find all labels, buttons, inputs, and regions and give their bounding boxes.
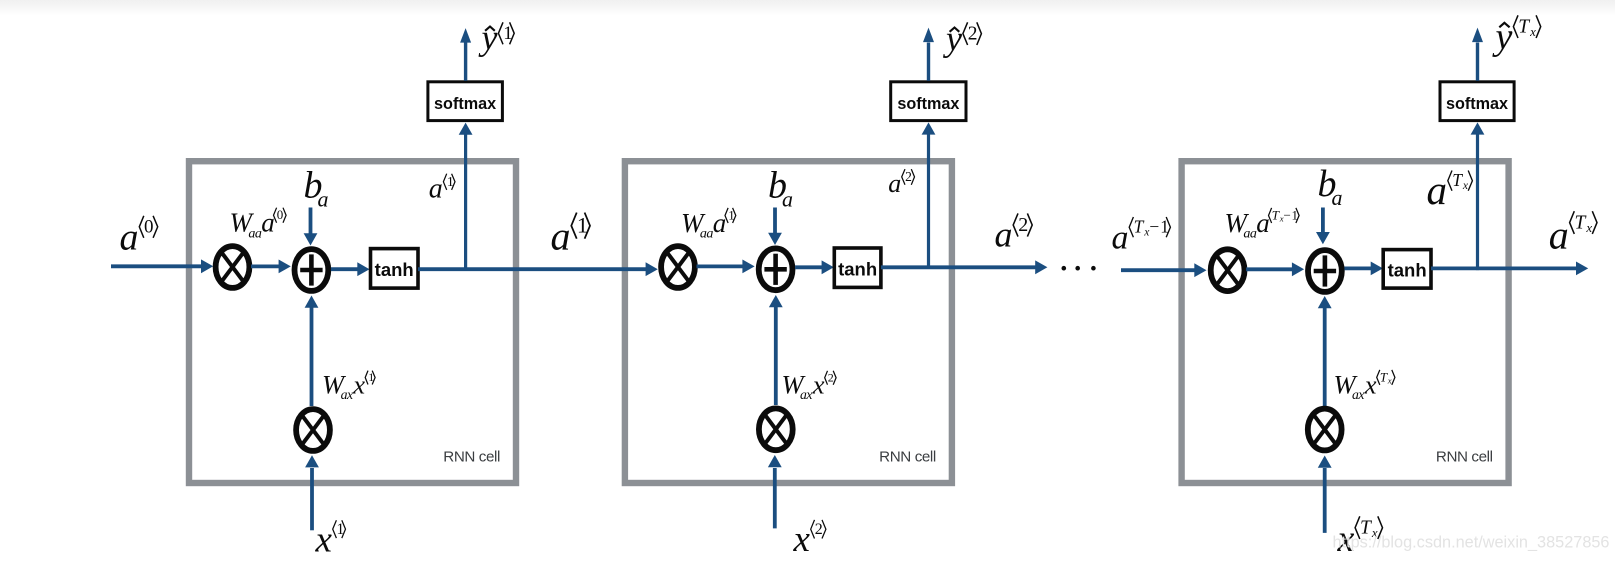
- label Waa a<0>: [230, 207, 287, 241]
- svg-text:x: x: [1364, 370, 1377, 400]
- RNN cell 3 caption: [1436, 449, 1493, 466]
- multiply node bottom cell3: [1308, 409, 1342, 451]
- wire mult2 to plus2: [697, 260, 755, 274]
- svg-text:ax: ax: [1352, 387, 1365, 402]
- tanh box cell1: [371, 249, 419, 289]
- svg-text:T: T: [1380, 369, 1388, 384]
- svg-text:−: −: [1284, 207, 1291, 222]
- svg-text:a: a: [318, 187, 329, 212]
- svg-text:T: T: [1575, 212, 1587, 233]
- label Wax x<Tx>: [1334, 369, 1395, 402]
- svg-text:x: x: [352, 369, 365, 399]
- wire softmax1 to yhat1: [460, 28, 471, 81]
- svg-text:ax: ax: [341, 387, 354, 402]
- svg-text:0: 0: [144, 217, 154, 238]
- label a<2> internal: [888, 169, 914, 198]
- plus node cell2: [759, 248, 793, 290]
- label b_a cell3: [1318, 163, 1343, 210]
- svg-text:2: 2: [815, 521, 823, 538]
- wire b_a arrow cell1: [304, 208, 318, 246]
- wire junction2 up to softmax2: [922, 122, 936, 269]
- svg-text:a: a: [1427, 167, 1448, 213]
- multiply node bottom cell1: [296, 409, 330, 451]
- svg-text:ax: ax: [800, 387, 813, 402]
- label a<Tx> inter: [1549, 211, 1597, 257]
- softmax box cell2: [891, 82, 966, 121]
- svg-text:x: x: [1529, 25, 1536, 39]
- label b_a cell2: [768, 165, 793, 212]
- svg-text:a: a: [1112, 219, 1129, 256]
- svg-text:aa: aa: [248, 225, 262, 241]
- label a<Tx> internal: [1427, 167, 1473, 213]
- svg-text:softmax: softmax: [434, 95, 496, 113]
- wire x2 input arrow: [768, 455, 782, 528]
- label a<Tx-1>: [1112, 216, 1171, 256]
- svg-text:x: x: [315, 519, 333, 558]
- svg-text:tanh: tanh: [1388, 260, 1427, 281]
- tanh box cell2: [834, 248, 881, 287]
- wire junction3 up to softmax3: [1471, 122, 1485, 270]
- svg-text:a: a: [120, 216, 139, 258]
- wire softmax2 to yhat2: [923, 28, 934, 81]
- svg-text:2: 2: [828, 370, 834, 384]
- label a<0>: [120, 216, 158, 258]
- label yhat<2>: [943, 19, 981, 59]
- wire a0 input arrow: [111, 259, 213, 273]
- multiply node bottom cell2: [759, 408, 793, 450]
- svg-text:a: a: [1549, 212, 1569, 257]
- label x<2>: [793, 519, 826, 560]
- svg-text:y: y: [943, 19, 962, 59]
- multiply node cell2: [661, 246, 695, 288]
- multiply node cell1: [216, 246, 250, 288]
- wire softmax3 to yhat3: [1472, 28, 1483, 81]
- RNN cell 2 box: [625, 161, 952, 483]
- label Waa a<1> cell2: [681, 207, 736, 241]
- svg-text:T: T: [1452, 170, 1463, 190]
- wire junction1 up to softmax1: [459, 123, 473, 271]
- label Wax x<2>: [782, 370, 837, 403]
- wire xTx input arrow: [1318, 456, 1332, 533]
- svg-text:T: T: [1518, 17, 1530, 38]
- plus node cell1: [295, 249, 329, 291]
- svg-text:−: −: [1149, 216, 1159, 236]
- svg-text:a: a: [713, 208, 727, 238]
- wire tanh2 out with arrow to dots: [881, 260, 1048, 274]
- label yhat<Tx>: [1492, 15, 1541, 58]
- label Wax x<1>: [322, 369, 375, 402]
- wire b_a arrow cell3: [1316, 208, 1330, 245]
- label a<1> inter: [551, 212, 591, 258]
- svg-text:aa: aa: [1243, 226, 1257, 242]
- svg-text:2: 2: [968, 24, 978, 45]
- label Waa a<Tx-1> cell3: [1225, 207, 1300, 241]
- wire tanh1 out to cell2: [418, 262, 658, 276]
- label b_a cell1: [304, 165, 329, 212]
- svg-text:tanh: tanh: [375, 259, 414, 280]
- RNN cell 1 caption: [443, 449, 500, 466]
- wire plus1 from mult-bottom cell1: [305, 296, 319, 407]
- svg-text:RNN cell: RNN cell: [1436, 449, 1493, 466]
- RNN cell 3 box: [1182, 161, 1509, 483]
- svg-text:tanh: tanh: [838, 259, 877, 280]
- RNN cell 1 box: [189, 161, 516, 483]
- wire plus3 to tanh3: [1344, 262, 1383, 276]
- wire x1 input arrow: [305, 455, 319, 530]
- svg-text:x: x: [1585, 221, 1592, 235]
- svg-text:a: a: [995, 215, 1013, 255]
- svg-text:softmax: softmax: [1446, 95, 1508, 113]
- plus node cell3: [1308, 250, 1342, 292]
- label yhat<1>: [479, 18, 515, 58]
- wire mult3 to plus3: [1246, 262, 1304, 276]
- svg-text:2: 2: [905, 169, 912, 184]
- wire plus1 to tanh1: [331, 262, 370, 276]
- svg-text:aa: aa: [700, 226, 714, 242]
- RNN cell 2 caption: [879, 449, 936, 466]
- wire b_a arrow cell2: [768, 208, 782, 246]
- softmax box cell3: [1440, 82, 1514, 121]
- svg-text:a: a: [551, 213, 571, 258]
- label x<Tx>: [1337, 516, 1383, 560]
- wire plus3 from mult-bottom cell3: [1318, 296, 1332, 406]
- label a<1> internal: [429, 174, 455, 205]
- wire into cell3: [1121, 263, 1207, 277]
- svg-text:x: x: [1387, 376, 1392, 386]
- svg-text:a: a: [888, 169, 901, 198]
- svg-text:y: y: [479, 18, 498, 58]
- svg-text:a: a: [429, 174, 443, 205]
- label x<1>: [315, 519, 346, 560]
- multiply node cell3: [1211, 249, 1245, 291]
- svg-text:T: T: [1272, 207, 1280, 222]
- svg-text:T: T: [1134, 216, 1145, 236]
- svg-text:a: a: [261, 208, 275, 238]
- ellipsis dots: [1062, 266, 1096, 271]
- svg-text:RNN cell: RNN cell: [879, 449, 936, 466]
- svg-text:0: 0: [277, 207, 284, 222]
- svg-text:a: a: [1332, 185, 1343, 210]
- watermark: [1333, 534, 1610, 552]
- svg-text:https://blog.csdn.net/weixin_3: https://blog.csdn.net/weixin_38527856: [1333, 534, 1610, 552]
- svg-text:softmax: softmax: [897, 95, 959, 113]
- wire plus2 from mult-bottom cell2: [769, 295, 783, 405]
- svg-text:a: a: [782, 187, 793, 212]
- svg-text:RNN cell: RNN cell: [443, 449, 500, 466]
- wire plus2 to tanh2: [795, 260, 834, 274]
- wire mult1 to plus1: [251, 260, 291, 274]
- wire tanh3 out arrow: [1431, 262, 1588, 276]
- svg-text:x: x: [812, 370, 825, 400]
- svg-text:y: y: [1492, 16, 1513, 58]
- svg-text:2: 2: [1018, 214, 1028, 236]
- tanh box cell3: [1383, 250, 1431, 289]
- label a<2> inter: [995, 213, 1033, 254]
- softmax box cell1: [428, 82, 503, 121]
- svg-text:x: x: [793, 519, 811, 558]
- svg-text:a: a: [1256, 208, 1270, 238]
